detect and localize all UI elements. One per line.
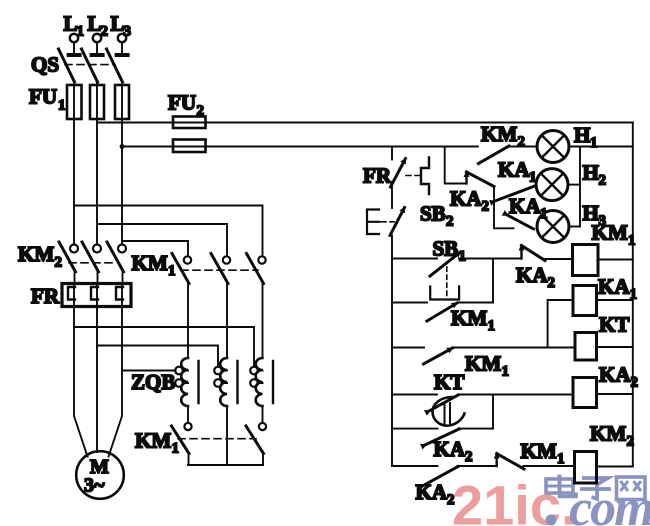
contactor KM2 main contacts: [18, 242, 126, 272]
svg-text:1: 1: [502, 364, 510, 380]
contact KM2 (NO, to H1): [478, 122, 537, 164]
svg-text:ZQB: ZQB: [131, 370, 175, 394]
relay contact KA2 (NC, in KM1 coil row): [516, 246, 573, 292]
svg-text:QS: QS: [31, 53, 59, 77]
wire phase A column: [73, 82, 75, 244]
node junction line2 / phase C: [120, 144, 125, 149]
coil KA2: [573, 363, 638, 408]
wire star point bar: [188, 464, 263, 466]
relay contact KA1 (to H2): [495, 158, 537, 202]
wire motor lead C: [109, 307, 123, 457]
wire drop to lamp cluster: [445, 147, 467, 184]
svg-text:KM: KM: [18, 242, 54, 266]
svg-text:1: 1: [77, 24, 85, 40]
contactor KM1 main contacts: [132, 251, 266, 284]
svg-text:KM: KM: [132, 251, 168, 275]
wire left rail upper: [391, 147, 393, 160]
wire branch C to winding 1 tap: [122, 370, 176, 372]
svg-text:H: H: [583, 201, 599, 225]
svg-text:KA: KA: [598, 275, 630, 299]
svg-text:KM: KM: [451, 306, 487, 330]
wire motor lead B: [96, 307, 98, 453]
wire bus line 1: [97, 122, 633, 124]
svg-text:1: 1: [488, 318, 496, 334]
svg-text:KA: KA: [509, 194, 541, 218]
svg-text:KA: KA: [498, 158, 530, 182]
svg-text:2: 2: [447, 492, 455, 508]
lamp H3: [537, 201, 606, 243]
contact KM1 (NC interlock, bottom row): [497, 439, 575, 469]
autotransformer ZQB: [131, 358, 273, 406]
lamp H1: [537, 123, 633, 163]
svg-text:FU: FU: [29, 85, 57, 109]
wire KM1 pole 3 to winding 3: [262, 284, 264, 359]
wire branch A to winding 3 tap: [74, 327, 254, 367]
svg-text:KA: KA: [434, 437, 466, 461]
switch QS: [31, 49, 123, 82]
pushbutton SB1 (start, NO): [392, 237, 522, 300]
svg-text:L: L: [111, 12, 125, 36]
contact KM1 (NO self-hold row): [392, 303, 495, 335]
svg-text:KM: KM: [521, 439, 557, 463]
wire riser row5 to row4: [492, 395, 494, 429]
svg-text:SB: SB: [433, 237, 459, 261]
svg-text:L: L: [88, 12, 102, 36]
wire KM1 pole 2 to winding 2: [226, 284, 228, 359]
svg-text:KA: KA: [450, 187, 482, 211]
wire winding 2 bottom to star bar: [226, 406, 228, 465]
svg-text:KA: KA: [599, 363, 631, 387]
wire phase B column: [96, 82, 98, 244]
svg-text:FU: FU: [168, 91, 196, 115]
contact KM1 (NO, KT/KA1 row): [392, 348, 575, 380]
svg-text:3~: 3~: [84, 475, 105, 497]
svg-text:1: 1: [557, 451, 565, 467]
contactor KM1 star contacts: [135, 423, 266, 465]
svg-text:L: L: [64, 12, 78, 36]
wire right rail: [632, 123, 634, 467]
wire lamp cluster vertical: [494, 187, 514, 229]
svg-text:KM: KM: [481, 122, 517, 146]
svg-text:1: 1: [590, 135, 598, 151]
svg-text:2: 2: [101, 24, 109, 40]
relay contact KA2 (lamp cluster): [450, 172, 494, 215]
svg-text:2: 2: [599, 173, 607, 189]
svg-text:1: 1: [58, 98, 66, 114]
time-delay contact KT (NO delayed close): [392, 370, 573, 426]
wire bus line 2: [122, 146, 478, 148]
svg-text:KM: KM: [465, 352, 501, 376]
wire branch B to winding 2 tap: [97, 346, 218, 367]
wire winding 3 bottom: [262, 406, 264, 423]
wire branch phase B to KM1 pole 2: [97, 224, 227, 256]
svg-text:KA: KA: [416, 480, 448, 504]
svg-text:H: H: [583, 161, 599, 185]
svg-text:1: 1: [459, 249, 467, 265]
wire winding 1 bottom: [187, 406, 189, 423]
svg-text:1: 1: [168, 263, 176, 279]
terminal L1: [64, 12, 85, 56]
thermal contact FR (NC): [363, 158, 429, 195]
coil KM2: [575, 422, 635, 484]
wire branch phase A to KM1 pole 3: [74, 206, 263, 257]
relay contact KA1 (to H3): [508, 194, 548, 229]
svg-text:2: 2: [548, 275, 556, 291]
svg-text:SB: SB: [420, 202, 446, 226]
wire left rail between FR and SB2: [391, 187, 393, 208]
fuse FU1: [29, 85, 129, 120]
svg-text:FR: FR: [363, 164, 392, 188]
svg-text:KA: KA: [516, 263, 548, 287]
thermal relay FR heater box: [31, 284, 131, 309]
svg-text:KT: KT: [434, 370, 464, 394]
svg-text:KT: KT: [599, 313, 629, 337]
svg-text:1: 1: [172, 441, 180, 457]
svg-text:H: H: [574, 123, 590, 147]
coil KM1: [573, 221, 636, 276]
wire left rail lower: [391, 235, 393, 466]
terminal L3: [111, 12, 132, 56]
pushbutton SB2 (stop, NC): [367, 202, 454, 236]
svg-text:2: 2: [197, 103, 205, 119]
wire riser row2 to row1: [492, 259, 494, 303]
svg-text:2: 2: [482, 199, 490, 215]
svg-text:2: 2: [631, 375, 639, 391]
terminal L2: [88, 12, 109, 56]
svg-text:3: 3: [124, 24, 132, 40]
svg-text:KM: KM: [590, 422, 626, 446]
relay contact KA2 (NO, bottom row): [392, 466, 497, 508]
wire motor lead A: [74, 307, 88, 457]
svg-text:2: 2: [446, 214, 454, 230]
svg-text:1: 1: [628, 233, 636, 249]
svg-text:2: 2: [518, 134, 526, 150]
wire phase C column: [121, 82, 123, 244]
coil KT: [575, 313, 633, 361]
wire KM2 poles to FR box: [75, 271, 123, 284]
fuse FU2: [168, 91, 206, 153]
motor M: [76, 451, 124, 499]
svg-text:KM: KM: [135, 429, 171, 453]
svg-text:3: 3: [599, 213, 607, 229]
svg-text:2: 2: [465, 449, 473, 465]
svg-text:2: 2: [55, 255, 63, 271]
lamp H2: [536, 161, 606, 201]
svg-text:FR: FR: [31, 284, 60, 308]
wire branch phase C to KM1 pole 1: [122, 241, 188, 256]
relay contact KA2 (NO self-hold row): [392, 429, 493, 465]
wire lamp bus: [579, 147, 581, 227]
wire KM1 pole 1 to winding 1: [187, 284, 189, 359]
coil KA1: [548, 275, 637, 348]
